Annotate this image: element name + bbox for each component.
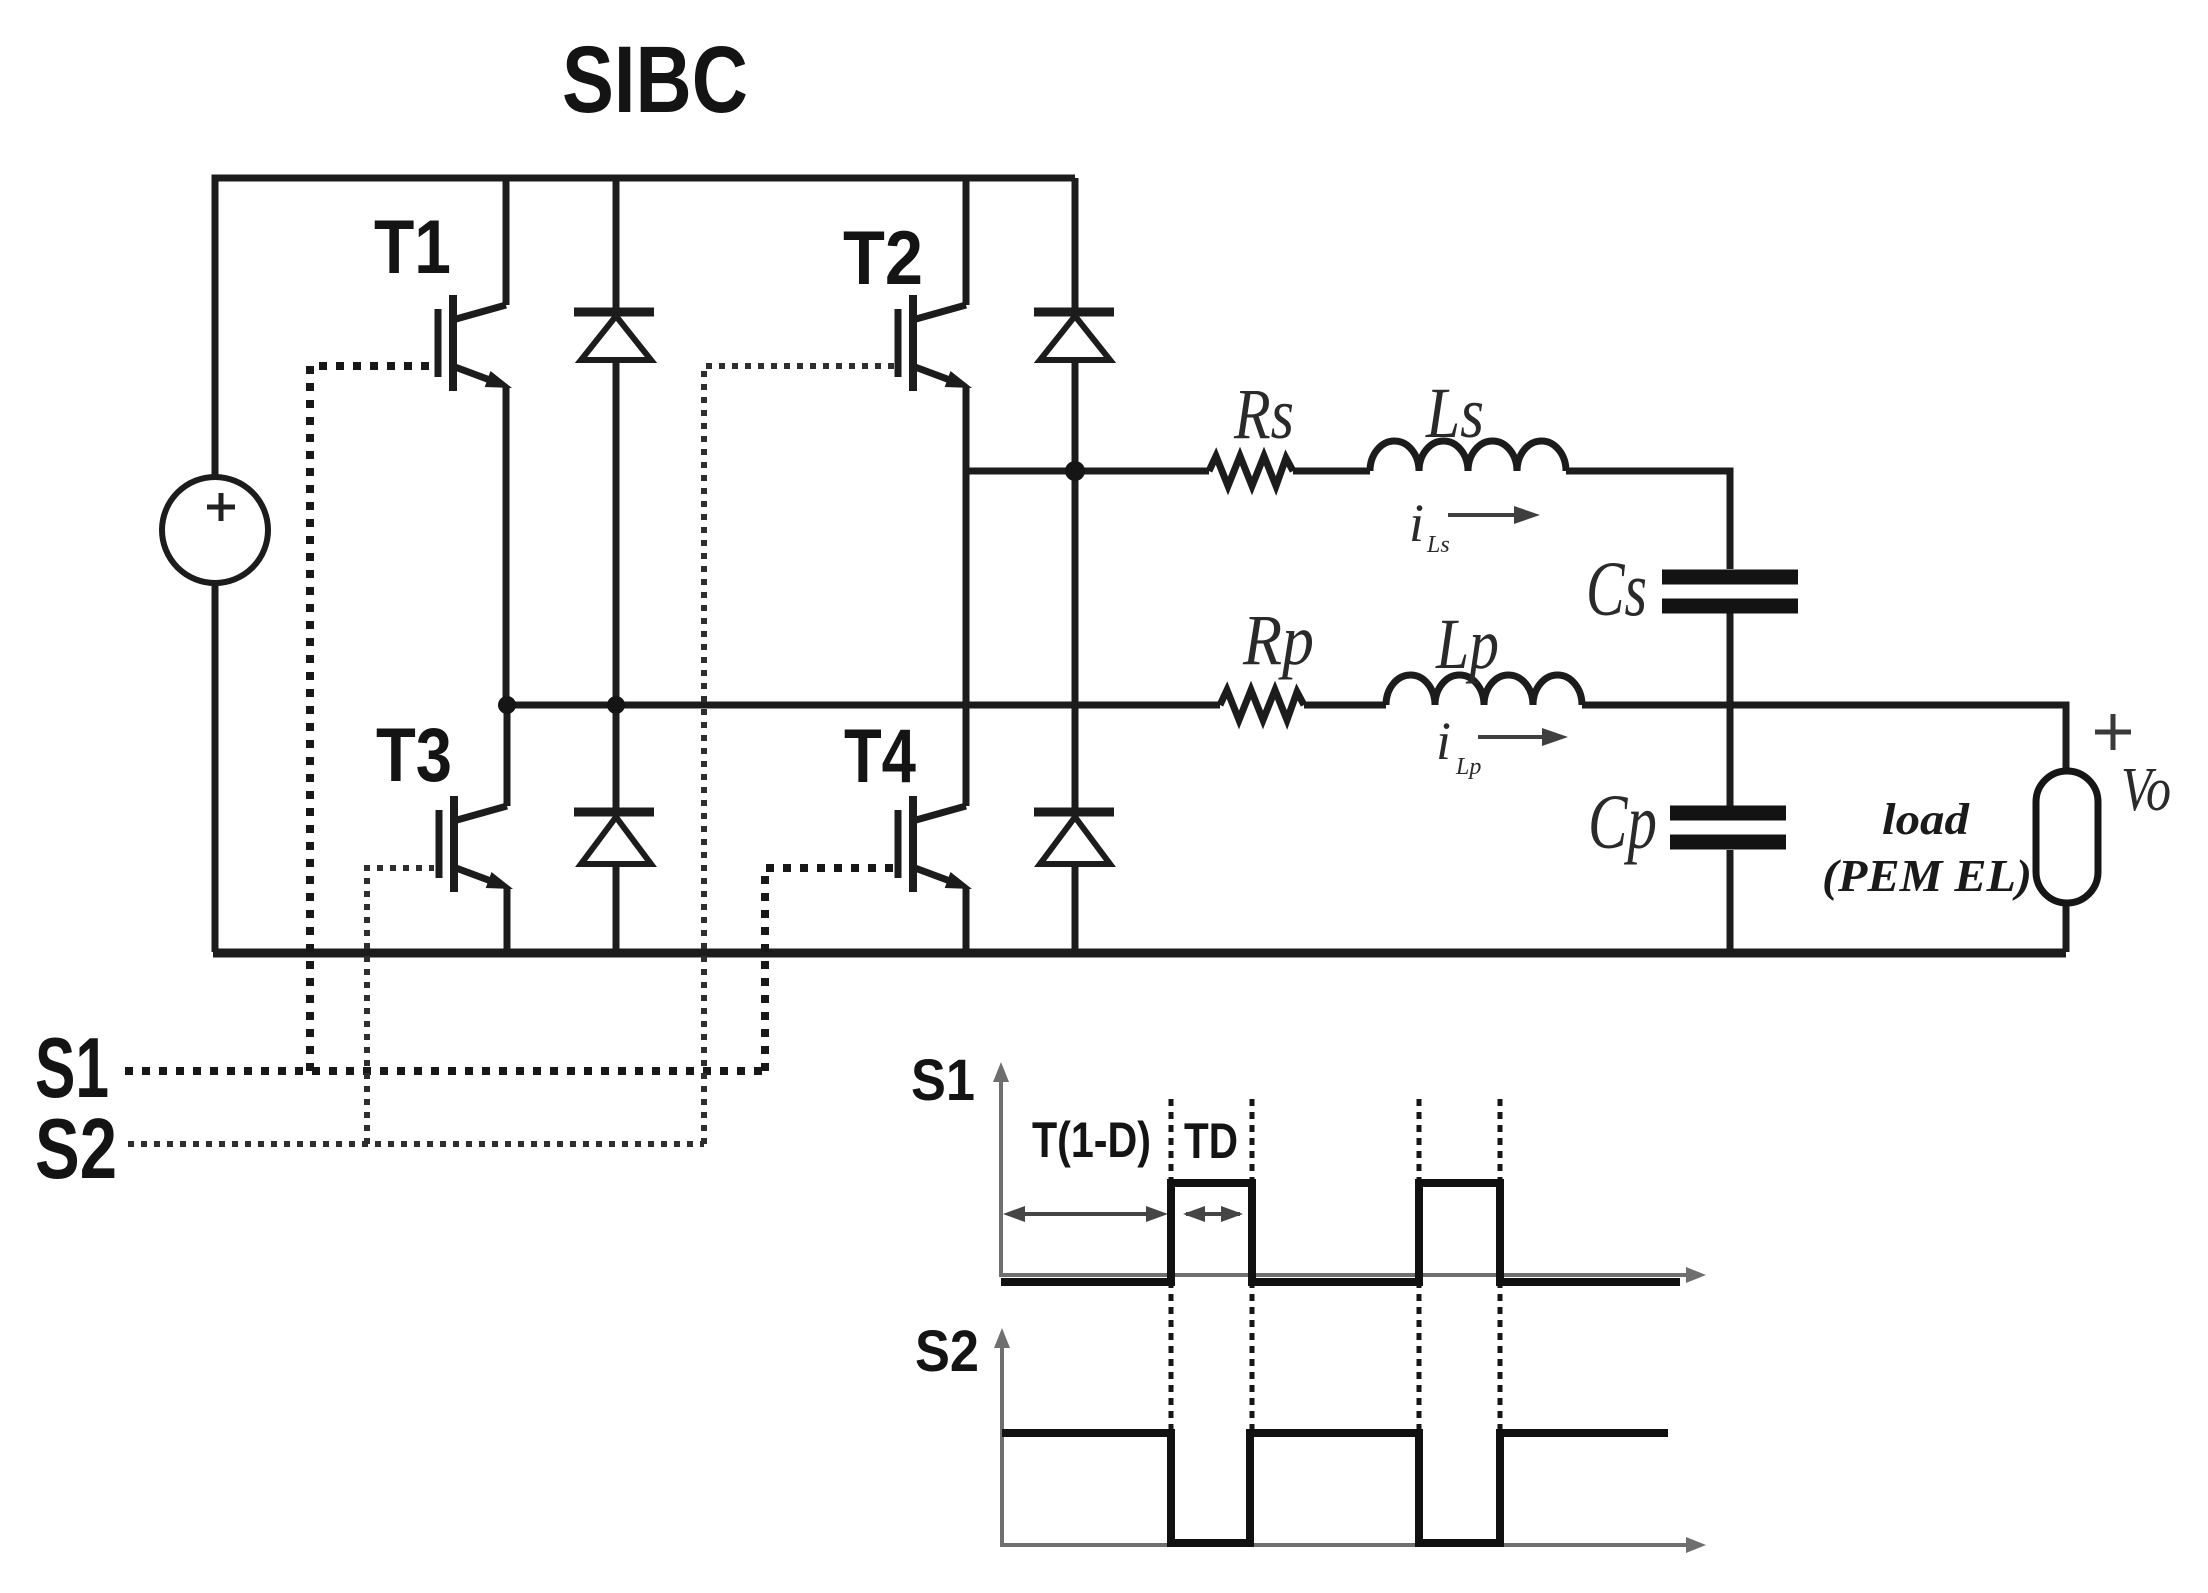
- svg-text:T4: T4: [844, 714, 916, 799]
- dimension arrow TD: [1183, 1206, 1243, 1222]
- voltage source plus sign: [207, 493, 235, 521]
- control line S2 to T3 gate: [367, 868, 434, 1144]
- svg-text:(PEM EL): (PEM EL): [1822, 850, 2032, 901]
- transistor T2: [898, 178, 966, 391]
- svg-text:SIBC: SIBC: [562, 27, 748, 133]
- wire load bottom: [2063, 903, 2070, 952]
- svg-text:Lp: Lp: [1455, 754, 1481, 780]
- current arrow iLs: [1409, 493, 1540, 558]
- capacitor Cp: [1670, 813, 1786, 842]
- svg-text:Lp: Lp: [1435, 604, 1499, 684]
- resistor Rs: [1209, 456, 1293, 486]
- wire Rs to Ls: [1293, 468, 1370, 475]
- control line S1 to T1 gate: [310, 366, 434, 1071]
- wire Lp to load: [1582, 705, 2066, 771]
- control line S2 horizontal: [128, 1141, 704, 1147]
- control line S1 to T4 gate: [765, 868, 894, 1071]
- wire bottom rail: [213, 949, 2066, 958]
- S2 axis arrowhead up: [994, 1328, 1010, 1348]
- guide line t3: [1417, 1099, 1422, 1431]
- S1 axis arrowhead right: [1686, 1267, 1706, 1283]
- junction mid rail / diode branch left: [607, 696, 625, 714]
- wire Cs to Cp: [1727, 613, 1734, 806]
- wire Ls to Cs: [1566, 471, 1730, 569]
- control line S1 horizontal: [125, 1067, 765, 1075]
- guide line t4: [1498, 1099, 1503, 1431]
- svg-text:i: i: [1436, 711, 1451, 771]
- svg-text:S2: S2: [35, 1102, 117, 1197]
- junction mid rail / T1-T3 column: [498, 696, 516, 714]
- svg-text:S1: S1: [911, 1048, 975, 1113]
- wire T2 emitter through Rs node to T4 collector: [963, 387, 970, 806]
- diode D3: [574, 812, 654, 864]
- S1 time axis: [1001, 1078, 1692, 1275]
- current arrow iLp: [1436, 711, 1568, 780]
- wire Rs branch: [966, 468, 1209, 475]
- S1 axis arrowhead up: [993, 1062, 1009, 1082]
- capacitor Cs: [1662, 577, 1798, 606]
- S2 waveform: [1002, 1433, 1668, 1543]
- wire Cp to bottom rail: [1727, 850, 1734, 952]
- S2 axis arrowhead right: [1686, 1537, 1706, 1553]
- diode D4: [1034, 812, 1114, 864]
- voltage source V: [162, 477, 268, 583]
- guide line t1: [1169, 1099, 1174, 1431]
- svg-text:Ls: Ls: [1425, 373, 1484, 453]
- inductor Ls: [1370, 441, 1566, 471]
- wire source bottom to bottom rail: [212, 582, 219, 952]
- wire diode branch right: [1072, 178, 1079, 952]
- diode D2: [1034, 312, 1114, 360]
- svg-text:Ls: Ls: [1426, 532, 1450, 558]
- control line S2 to T2 gate: [704, 366, 894, 1144]
- diode D1: [574, 312, 654, 360]
- junction Rs node / diode branch right: [1065, 461, 1085, 481]
- svg-text:T1: T1: [374, 205, 451, 290]
- svg-text:Cp: Cp: [1588, 778, 1657, 865]
- dimension arrow T(1-D): [1003, 1206, 1168, 1222]
- label plus polarity: [2095, 714, 2131, 750]
- svg-text:S2: S2: [915, 1319, 979, 1384]
- S2 time axis: [1002, 1344, 1692, 1545]
- svg-text:T2: T2: [843, 216, 923, 301]
- load (PEM EL): [2036, 771, 2098, 903]
- svg-text:Vo: Vo: [2121, 756, 2171, 824]
- wire mid rail left: [507, 702, 1220, 709]
- svg-text:load: load: [1882, 795, 1970, 844]
- transistor T3: [439, 705, 507, 892]
- wire T4 emitter to bottom rail: [963, 888, 970, 952]
- inductor Lp: [1386, 675, 1582, 705]
- resistor Rp: [1220, 690, 1304, 720]
- S1 waveform: [1001, 1183, 1680, 1282]
- svg-text:TD: TD: [1184, 1113, 1238, 1169]
- transistor T1: [438, 178, 506, 391]
- svg-text:Cs: Cs: [1586, 545, 1647, 632]
- wire T3 emitter to bottom rail: [504, 888, 511, 952]
- guide line t2: [1250, 1099, 1255, 1431]
- wire diode branch left: [613, 178, 620, 952]
- wire Rp to Lp: [1304, 702, 1386, 709]
- wire T1 emitter to mid rail: [503, 387, 510, 705]
- svg-text:i: i: [1409, 493, 1424, 553]
- transistor T4: [898, 796, 966, 892]
- svg-text:T(1-D): T(1-D): [1032, 1112, 1151, 1168]
- svg-text:T3: T3: [376, 713, 452, 798]
- wire top rail: [215, 178, 1075, 478]
- svg-text:Rs: Rs: [1233, 374, 1294, 454]
- svg-text:Rp: Rp: [1242, 600, 1314, 680]
